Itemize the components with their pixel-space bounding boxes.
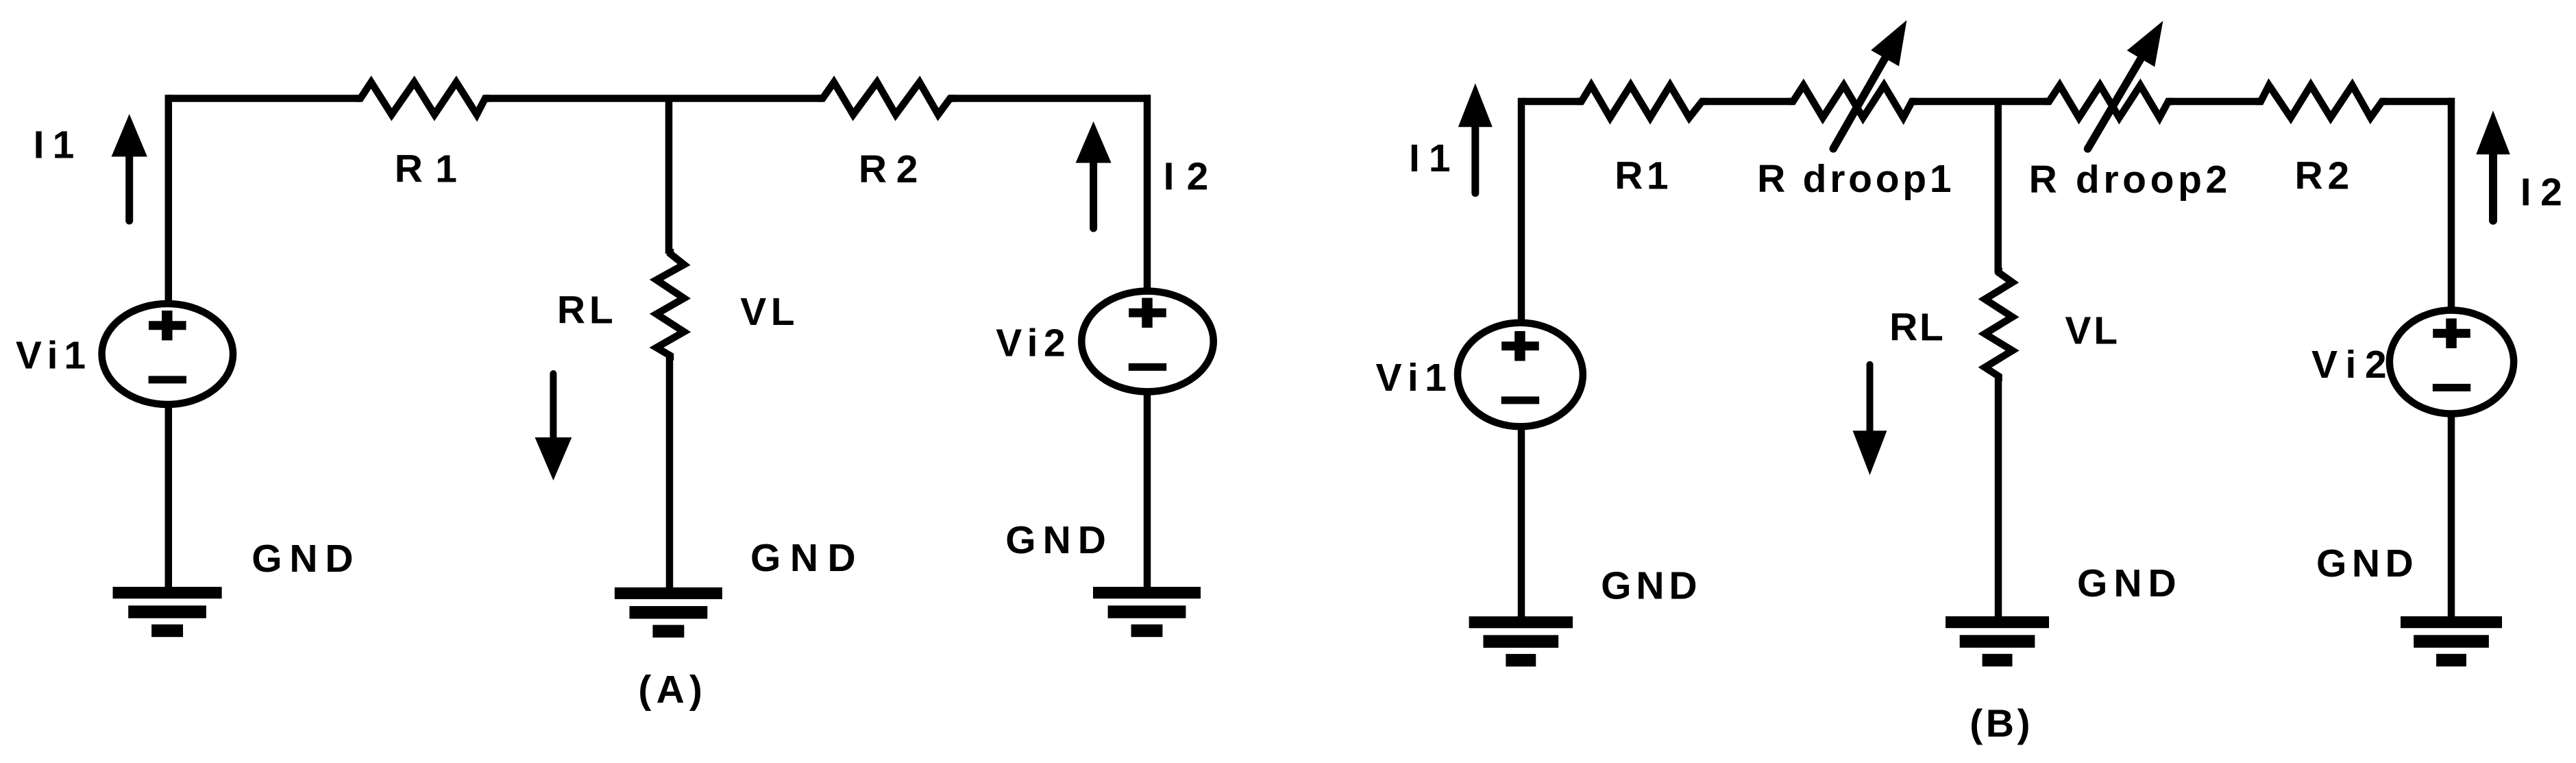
ground (B, RL branch) (1946, 616, 2049, 628)
ground (A, Vi2 branch) (1093, 587, 1201, 598)
wire: B top rail segment 2 (1702, 98, 1793, 106)
resistor RL (A) zigzag (657, 249, 684, 361)
wire: B top rail segment 1 (1521, 98, 1582, 106)
variable resistor R droop1 arrow (1833, 55, 1887, 149)
wire: B Vi2 to ground (2448, 417, 2455, 618)
current arrow I2 (B) (2476, 110, 2510, 154)
resistor R2 (A) zigzag (818, 82, 955, 114)
source Vi1 (A) symbol (102, 304, 233, 404)
wire: A top rail middle segment (485, 95, 823, 102)
svg-text:I1: I1 (34, 123, 83, 167)
wire: A top rail right segment (950, 95, 1151, 102)
source Vi1 (B) symbol (1458, 323, 1583, 427)
wire: B Vi1 to ground (1518, 430, 1525, 618)
wire: B top rail segment 5 (2382, 98, 2455, 106)
svg-text:Vi1: Vi1 (1376, 356, 1453, 400)
current arrow I1 (B) (1458, 84, 1493, 128)
variable resistor R droop2 zigzag (2044, 85, 2173, 117)
svg-text:R 2: R 2 (859, 147, 917, 191)
wire: A RL to ground (666, 356, 674, 588)
svg-text:(B): (B) (1970, 701, 2033, 745)
svg-text:R1: R1 (1615, 154, 1672, 198)
source Vi2 (A) symbol (1081, 291, 1214, 392)
svg-text:GND: GND (1005, 518, 1113, 562)
wire: B top rail segment 4 (2168, 98, 2261, 106)
svg-text:I2: I2 (2520, 171, 2572, 215)
wire: B top rail segment 3 (1912, 98, 2049, 106)
svg-text:I1: I1 (1409, 136, 1460, 180)
resistor R2 (B) zigzag (2256, 85, 2387, 117)
wire: A left vertical (Vi1 to top rail) (165, 95, 173, 300)
variable resistor R droop2 arrow (2088, 55, 2144, 149)
resistor R1 (A) zigzag (356, 82, 490, 114)
svg-text:R2: R2 (2295, 154, 2354, 198)
svg-text:GND: GND (252, 537, 360, 581)
node A: junction of R1/R2/RL (665, 99, 673, 254)
current arrow VL (A, down) (535, 437, 572, 481)
resistor R1 (B) zigzag (1577, 85, 1707, 117)
wire: B RL to ground (1995, 376, 2002, 618)
current arrow I2 (A) (1076, 121, 1112, 163)
svg-text:I2: I2 (1164, 155, 1221, 199)
svg-text:VL: VL (2065, 308, 2120, 352)
svg-text:Vi1: Vi1 (16, 334, 92, 378)
svg-text:GND: GND (1601, 564, 1702, 608)
resistor RL (B) zigzag (1985, 268, 2012, 381)
source Vi2 (B) symbol (2390, 311, 2514, 414)
wire: B left vertical (Vi1 to top rail) (1518, 98, 1525, 319)
ground (A, RL branch) (615, 588, 722, 599)
svg-text:R 1: R 1 (395, 147, 458, 191)
ground (A, Vi1 branch) (113, 587, 222, 598)
current arrow VL (B, down) (1853, 431, 1887, 475)
svg-text:R droop1: R droop1 (1757, 157, 1954, 201)
svg-text:Vi2: Vi2 (2311, 343, 2395, 387)
svg-text:RL: RL (1889, 305, 1946, 349)
svg-text:(A): (A) (638, 668, 707, 712)
wire: A Vi1 to ground (165, 408, 173, 589)
wire: A top rail left segment (169, 95, 360, 102)
svg-text:R droop2: R droop2 (2029, 158, 2231, 202)
wire: B right vertical (top rail to Vi2) (2448, 98, 2455, 307)
variable resistor R droop1 zigzag (1788, 85, 1917, 117)
wire: A right vertical (top rail to Vi2) (1144, 95, 1151, 288)
ground (B, Vi1 branch) (1469, 616, 1573, 628)
wire: A Vi2 to ground (1144, 395, 1151, 589)
node B: junction of R1/R droop1/RL (1994, 101, 2002, 273)
current arrow I1 (A) (112, 114, 147, 156)
svg-text:GND: GND (2316, 542, 2418, 585)
svg-text:RL: RL (557, 289, 617, 332)
ground (B, Vi2 branch) (2401, 616, 2502, 628)
svg-text:Vi2: Vi2 (996, 322, 1071, 365)
svg-text:VL: VL (740, 290, 799, 334)
svg-text:GND: GND (750, 536, 865, 580)
svg-text:GND: GND (2077, 561, 2183, 605)
